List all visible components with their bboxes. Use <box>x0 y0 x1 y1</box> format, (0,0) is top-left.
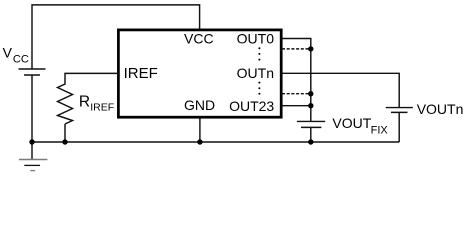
svg-text:R: R <box>79 94 90 111</box>
svg-text:VOUT: VOUT <box>332 115 371 131</box>
svg-text:IREF: IREF <box>124 65 158 82</box>
svg-text:FIX: FIX <box>371 124 389 136</box>
svg-text:V: V <box>3 45 13 61</box>
svg-text:IREF: IREF <box>90 102 114 114</box>
svg-text:OUT0: OUT0 <box>237 31 275 47</box>
svg-text:VCC: VCC <box>184 31 214 47</box>
svg-text:OUT23: OUT23 <box>229 98 274 114</box>
svg-text:OUTn: OUTn <box>237 65 274 81</box>
svg-text:VOUTn: VOUTn <box>417 101 464 117</box>
svg-text:GND: GND <box>184 97 215 113</box>
svg-text:CC: CC <box>13 53 29 65</box>
